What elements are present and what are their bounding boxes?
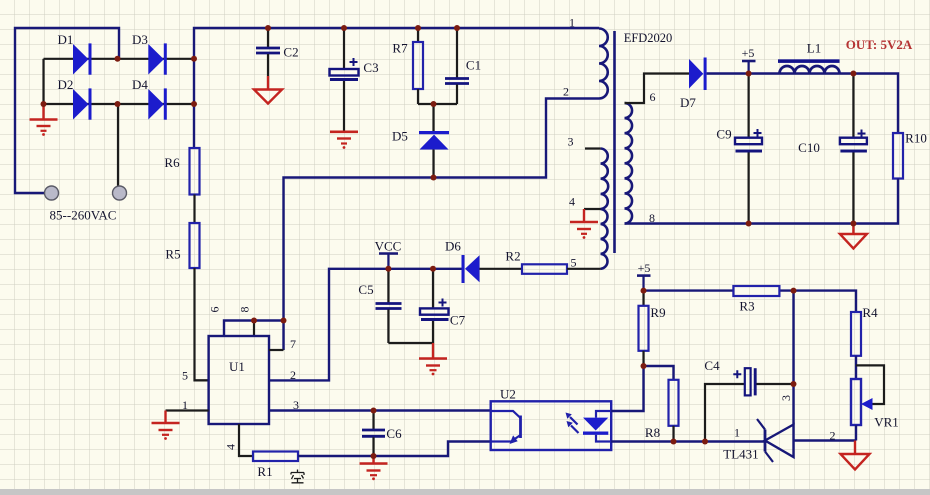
op-amp U1 box xyxy=(209,336,269,424)
svg-text:R3: R3 xyxy=(739,299,754,314)
wire R4 to VR1 xyxy=(855,356,857,379)
svg-text:R10: R10 xyxy=(905,131,927,146)
capacitor C5 xyxy=(376,269,434,343)
svg-text:C3: C3 xyxy=(363,60,378,75)
wire U2 bottom-right rail xyxy=(611,440,765,442)
svg-text:R7: R7 xyxy=(392,41,408,56)
diode D5 xyxy=(419,104,449,178)
svg-text:5: 5 xyxy=(182,369,188,383)
inductor L1 xyxy=(778,59,840,73)
wire AC terminal 2 vertical xyxy=(117,104,119,186)
ground at transformer pin 4 xyxy=(570,209,598,239)
wire R6-R5 xyxy=(193,195,195,224)
potentiometer VR1 xyxy=(851,365,884,440)
transformer primary winding pins 1-2 xyxy=(599,29,608,99)
diode D2 xyxy=(73,88,92,119)
diode D4 xyxy=(148,88,167,119)
node AC terminal 1 xyxy=(45,186,59,200)
ground at C2 (bar triangle) xyxy=(254,76,282,104)
svg-text:2: 2 xyxy=(290,368,296,382)
svg-text:R5: R5 xyxy=(165,247,180,262)
transformer secondary winding pins 6-8 xyxy=(625,103,633,224)
svg-text:1: 1 xyxy=(734,426,740,440)
transformer bias winding pins 4-5 xyxy=(601,209,608,269)
svg-text:2: 2 xyxy=(563,85,569,99)
wire R1 to U2 xyxy=(298,442,491,457)
svg-text:+5: +5 xyxy=(742,46,755,60)
svg-text:4: 4 xyxy=(569,195,575,209)
resistor R10 xyxy=(893,133,903,179)
svg-text:C2: C2 xyxy=(283,45,298,60)
wire bridge left vertical xyxy=(42,59,44,104)
svg-text:VCC: VCC xyxy=(375,239,402,254)
svg-text:85--260VAC: 85--260VAC xyxy=(50,208,117,223)
capacitor C1 xyxy=(445,28,469,104)
svg-text:C9: C9 xyxy=(716,127,731,142)
svg-text:C10: C10 xyxy=(798,140,820,155)
svg-text:+5: +5 xyxy=(638,261,651,275)
svg-text:C4: C4 xyxy=(704,358,720,373)
wire R5 to U1 pin5 xyxy=(195,268,209,380)
svg-text:L1: L1 xyxy=(807,41,821,56)
svg-text:1: 1 xyxy=(569,16,575,30)
wire pin 4 stub xyxy=(584,208,601,210)
diode D3 xyxy=(148,43,167,74)
light arrows (U2) xyxy=(566,413,579,434)
wire U1 pin1 xyxy=(166,409,209,411)
svg-text:8: 8 xyxy=(238,307,252,313)
resistor R5 xyxy=(190,223,200,268)
svg-text:C5: C5 xyxy=(358,282,373,297)
wire bridge upper row xyxy=(44,58,195,60)
diode D7 xyxy=(689,58,707,91)
wire U1 pin7 xyxy=(269,349,284,351)
svg-text:D7: D7 xyxy=(680,95,696,110)
svg-text:2: 2 xyxy=(830,429,836,443)
svg-text:U2: U2 xyxy=(500,387,516,402)
svg-text:D1: D1 xyxy=(58,32,74,47)
ground at U1 pin1 xyxy=(152,411,180,440)
svg-text:R1: R1 xyxy=(257,464,272,479)
ground at C6 xyxy=(360,456,388,480)
svg-text:C1: C1 xyxy=(466,58,481,73)
wire VCC rail xyxy=(195,379,209,381)
svg-text:R2: R2 xyxy=(505,249,520,264)
svg-text:OUT: 5V2A: OUT: 5V2A xyxy=(846,37,913,52)
svg-text:U1: U1 xyxy=(229,359,245,374)
svg-text:C6: C6 xyxy=(386,426,402,441)
wire R9 to R8 xyxy=(644,366,674,380)
wire U1 pin3 to U2 xyxy=(269,409,491,411)
capacitor C7 xyxy=(420,269,449,343)
svg-text:R8: R8 xyxy=(645,425,660,440)
transistor Q (U2 phototransistor) xyxy=(491,411,521,444)
diode D6 xyxy=(462,255,480,283)
svg-text:D3: D3 xyxy=(132,32,148,47)
ground at D2 anode xyxy=(30,104,58,136)
svg-text:7: 7 xyxy=(290,337,296,351)
transformer bias winding pins 3-4 xyxy=(601,149,609,210)
svg-text:D2: D2 xyxy=(58,77,74,92)
svg-text:EFD2020: EFD2020 xyxy=(624,31,673,45)
diode D1 xyxy=(73,43,92,74)
svg-text:TL431: TL431 xyxy=(723,447,758,462)
svg-text:6: 6 xyxy=(208,307,222,313)
svg-text:VR1: VR1 xyxy=(874,415,899,430)
wire TL431 anode to VR1 xyxy=(794,439,856,441)
svg-text:D5: D5 xyxy=(392,129,408,144)
svg-text:D6: D6 xyxy=(445,239,461,254)
optocoupler U2 box xyxy=(491,401,612,450)
wire R3 to R4 xyxy=(779,291,856,312)
wire R7/C1 bottom xyxy=(418,103,457,105)
wire bridge lower row xyxy=(44,103,195,105)
power VCC xyxy=(379,254,398,269)
resistor R1 xyxy=(253,452,298,462)
capacitor C2 xyxy=(256,28,280,76)
svg-text:5: 5 xyxy=(571,256,577,270)
svg-text:4: 4 xyxy=(224,444,238,450)
svg-text:6: 6 xyxy=(650,90,656,104)
resistor R9 xyxy=(639,291,649,366)
resistor R6 xyxy=(190,148,200,195)
svg-text:D4: D4 xyxy=(132,77,148,92)
wire pin 3 stub xyxy=(585,147,601,149)
capacitor C3 xyxy=(330,28,359,131)
wire R2 to pin 5 xyxy=(567,268,601,270)
svg-text:C7: C7 xyxy=(450,313,466,328)
wire U1 pins 6/8 top xyxy=(224,321,284,337)
svg-text:R6: R6 xyxy=(164,155,180,170)
capacitor C10 xyxy=(840,74,867,224)
wire U2 top-right to R9 node xyxy=(611,366,643,411)
wire top rail xyxy=(194,28,599,104)
wire snubber return xyxy=(284,99,600,351)
transistor TL431 xyxy=(757,419,794,462)
power +5 (output) xyxy=(742,61,756,74)
diode LED (U2) xyxy=(583,411,611,442)
capacitor C4 xyxy=(705,368,794,441)
power +5 (feedback) xyxy=(637,276,651,291)
svg-text:3: 3 xyxy=(568,135,574,149)
resistor R7 xyxy=(413,28,423,104)
wire AC input loop xyxy=(15,28,119,193)
transformer core xyxy=(613,31,616,253)
wire R3 node to TL431 ref xyxy=(792,291,794,425)
wire output rail xyxy=(707,74,898,134)
resistor R8 xyxy=(669,380,679,442)
resistor R2 xyxy=(522,264,567,274)
ground at C10 (bar triangle) xyxy=(840,224,867,249)
capacitor C9 xyxy=(735,74,762,224)
ground at C7 xyxy=(419,343,447,375)
wire pin 6 xyxy=(625,74,690,104)
wire D6 to R2 xyxy=(480,268,523,270)
wire +5 rail to R3 xyxy=(644,289,734,291)
wire U1 pin8 stub xyxy=(253,321,255,337)
resistor R4 xyxy=(851,312,861,356)
label kong xyxy=(291,470,304,483)
capacitor C6 xyxy=(362,411,385,457)
wire R6 top xyxy=(193,104,195,148)
svg-text:3: 3 xyxy=(779,395,793,401)
ground at VR1 (bar triangle) xyxy=(841,441,870,470)
svg-text:R4: R4 xyxy=(862,305,878,320)
svg-text:R9: R9 xyxy=(650,305,665,320)
node AC terminal 2 xyxy=(113,186,127,200)
wire output bottom rail xyxy=(625,179,899,224)
wire U1 pin2 to VCC xyxy=(269,269,462,381)
resistor R3 xyxy=(733,286,779,296)
ground at C3 xyxy=(330,132,358,149)
wire U1 pin4 xyxy=(239,424,253,456)
